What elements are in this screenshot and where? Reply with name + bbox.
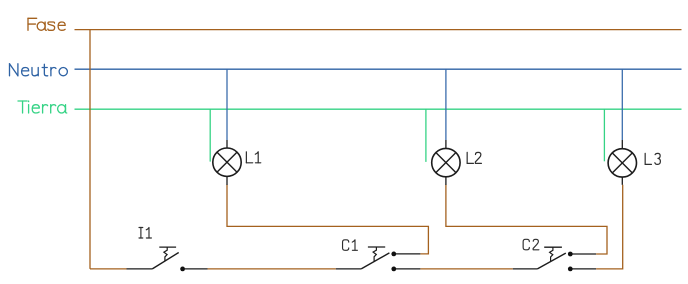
bus Neutro (neutral) — [75, 68, 682, 70]
switch C2 label — [523, 239, 539, 250]
switch I1 right contact dot — [180, 267, 185, 272]
wire: bottom rail brown segment to I1 — [90, 268, 127, 270]
lamp L2 label — [467, 152, 481, 163]
wire: C2 upper contact lead (black) — [573, 253, 597, 255]
switch C2 actuator spring — [550, 247, 553, 261]
wire: Neutro drop to lamp L3 (blue) — [621, 69, 623, 140]
lamp L1 — [213, 140, 241, 185]
wire: C1 upper contact to lamp L1 (brown) — [227, 185, 428, 254]
bus Fase (phase) — [75, 29, 682, 31]
switch I1 actuator bar — [159, 246, 176, 248]
wire: C1 common lead (black) — [336, 268, 361, 270]
net label Neutro — [10, 64, 68, 76]
wire: Fase drop to bottom rail — [89, 30, 91, 269]
switch C1 upper contact dot — [391, 252, 396, 257]
wire: rail I1 to C1 (brown) — [208, 268, 336, 270]
wire: Tierra stub at lamp L3 (green) — [603, 109, 605, 161]
lamp L2 — [432, 140, 460, 185]
switch C1 actuator bar — [368, 246, 385, 248]
bus Tierra (earth) — [75, 108, 682, 110]
wire: rail C1 to C2 (brown) — [420, 268, 512, 270]
net label Fase — [28, 18, 65, 30]
wire: C1 upper contact lead (black) — [396, 253, 420, 255]
lamp L3 label — [645, 153, 660, 164]
wire: C1 lower contact lead (black) — [396, 268, 420, 270]
lamp L3 — [608, 140, 636, 185]
wire: Tierra stub at lamp L2 (green) — [425, 109, 427, 162]
wire: Neutro drop to lamp L1 (blue) — [226, 69, 228, 140]
lamp L1 label — [246, 152, 260, 163]
net label Tierra — [18, 101, 67, 113]
wire: C2 common lead (black) — [513, 268, 538, 270]
switch C1 lower contact dot — [391, 267, 396, 272]
switch C2 actuator bar — [544, 246, 562, 248]
switch C1 label — [343, 240, 358, 251]
switch C2 upper contact dot — [568, 252, 573, 257]
wire: Tierra stub at lamp L1 (green) — [209, 109, 211, 161]
switch C1 blade — [361, 253, 389, 269]
switch C1 actuator spring — [373, 247, 376, 261]
wire: Neutro drop to lamp L2 (blue) — [445, 69, 447, 140]
wire: C2 lower contact lead (black) — [573, 268, 597, 270]
switch C2 blade — [537, 253, 565, 269]
wire: C2 upper contact to lamp L2 (brown) — [446, 185, 607, 254]
switch I1 actuator spring — [164, 247, 167, 261]
switch I1 label — [139, 228, 151, 239]
switch C2 lower contact dot — [568, 267, 573, 272]
wire: I1 left lead (black) — [127, 268, 153, 270]
wire: I1 right lead (black) — [185, 268, 208, 270]
switch I1 blade — [152, 253, 178, 269]
wire: C2 lower contact to lamp L3 (brown) — [596, 185, 623, 269]
